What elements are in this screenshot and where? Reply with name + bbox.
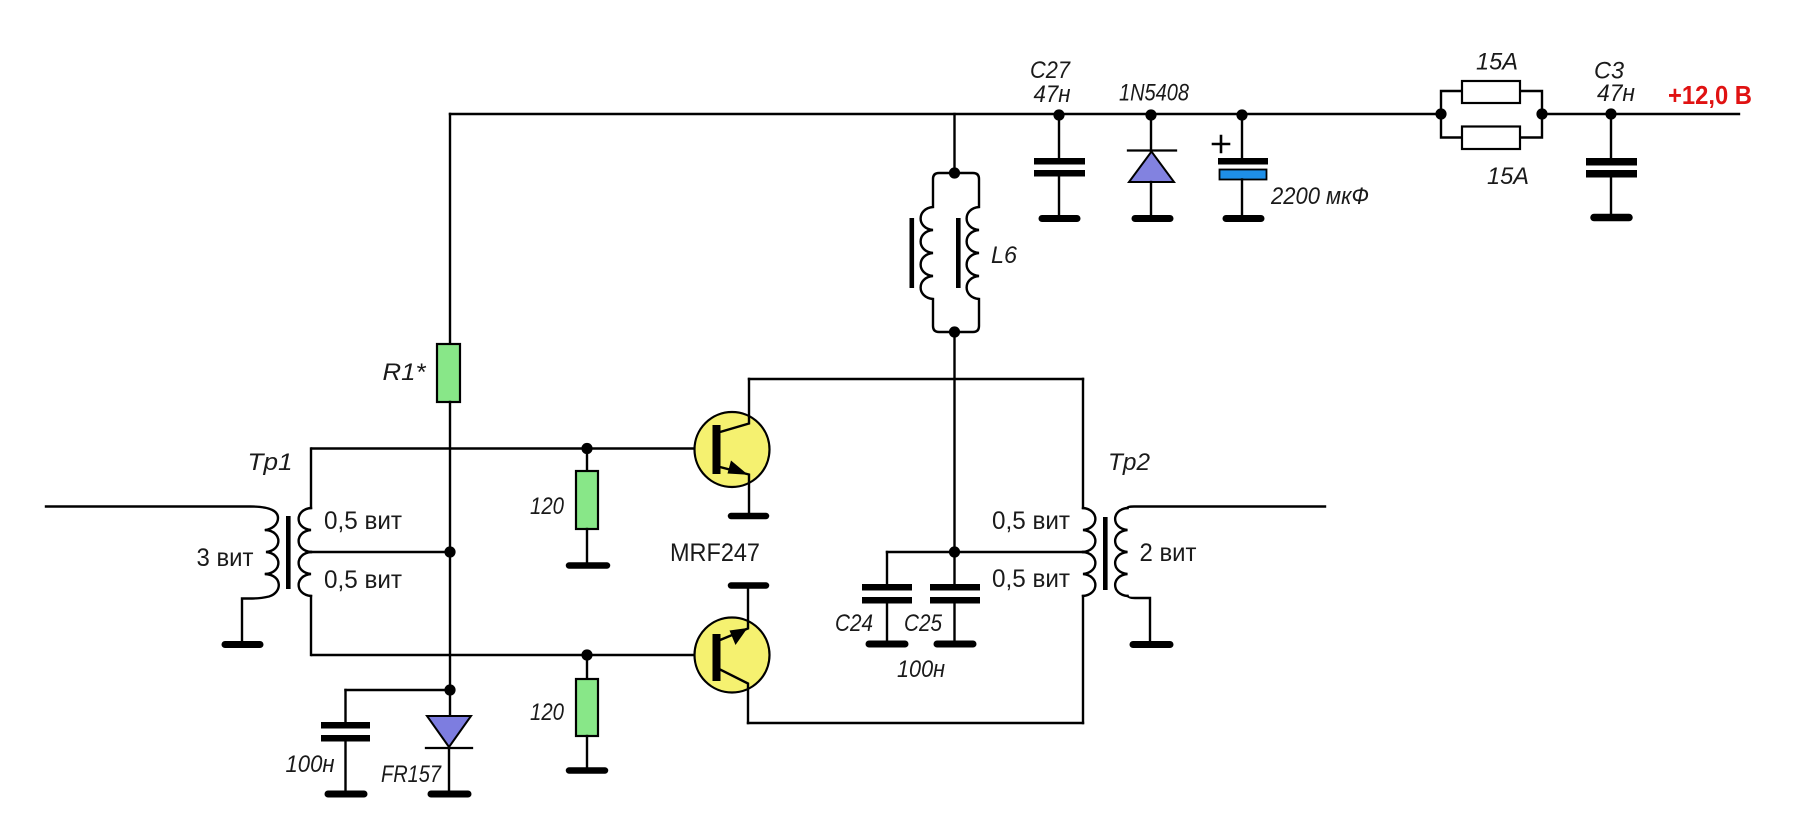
wire input line [46,507,278,531]
transformer Tp2 [992,449,1325,645]
node C27 [1053,109,1064,120]
svg-text:100н: 100н [286,751,335,778]
ground C27 [1042,215,1077,222]
wire collector box bottom [748,722,1083,724]
resistor R1 [437,344,460,402]
core L6 right [956,218,961,288]
inductor Tp1 secondary lower 0,5 вит [299,552,311,596]
ground Tp2 secondary [1133,641,1170,648]
fuse F1 15A [1462,81,1520,103]
wire box right upper [1082,379,1084,508]
svg-text:C25: C25 [904,610,943,637]
svg-text:1N5408: 1N5408 [1119,80,1190,107]
wire L6 bottom lead to center-tap junction [953,332,955,552]
wire +12V top rail left of fuse [450,113,1441,115]
node center-tap junction Tp1 [444,546,455,557]
svg-text:0,5 вит: 0,5 вит [324,507,403,535]
svg-text:47н: 47н [1597,80,1635,107]
wire Tp2 secondary to ground [1128,596,1151,640]
svg-text:+12,0 В: +12,0 В [1668,80,1752,110]
wire to capacitor 100н [346,689,451,691]
wire R1 top lead from rail [449,114,451,344]
wire +12V top rail right of fuse [1542,113,1739,115]
transformer Tp1 [46,449,403,656]
svg-text:100н: 100н [897,656,945,683]
core L6 left [910,218,915,288]
fuse F2 15A [1462,127,1520,150]
node fuse left [1435,108,1446,119]
svg-text:120: 120 [530,699,565,726]
ground D1 [1135,215,1170,222]
node D1 [1145,109,1156,120]
wire L6 top lead [953,114,955,173]
core Tp1 [286,516,291,589]
node L6 top [949,167,960,178]
wire upper base rail [312,447,713,449]
capacitor C27 [1030,57,1085,219]
inductor Tp1 secondary upper 0,5 вит [299,508,311,552]
ground 120 lower [569,767,605,774]
svg-text:0,5 вит: 0,5 вит [992,565,1071,593]
ground C electrolytic [1226,215,1261,222]
svg-text:2200 мкФ: 2200 мкФ [1270,183,1369,210]
capacitor C25 [897,552,980,683]
emitter line Q1 with arrow [720,467,749,513]
svg-text:47н: 47н [1034,81,1071,108]
wire center tap to Tp2 [955,551,1084,553]
ground Q2 emitter [731,582,766,589]
svg-text:15A: 15A [1487,163,1529,190]
inductor Tp1 primary 3 вит [266,530,278,574]
wire Tp2 secondary output [1128,507,1326,509]
node 120 R3 top [581,649,592,660]
transistor Q1 MRF247 upper [695,379,770,516]
ground FR157 [431,791,468,798]
svg-text:R1*: R1* [383,359,427,386]
capacitor 100н left [286,690,371,794]
node FR157 junction [444,684,455,695]
transistor Q2 MRF247 lower [695,586,770,724]
capacitor electrolytic 2200 мкФ [1213,109,1369,218]
node fuse right [1536,108,1547,119]
svg-text:Tp2: Tp2 [1108,449,1150,476]
svg-text:15A: 15A [1476,49,1518,76]
svg-text:2 вит: 2 вит [1140,539,1198,567]
node L6 bottom [949,326,960,337]
capacitor C3 [1586,58,1637,218]
capacitor C24 [835,552,912,644]
ground C25 [937,641,973,648]
collector line Q2 [720,670,748,724]
node C3 [1605,108,1616,119]
ground Q1 emitter [731,513,766,520]
svg-text:3 вит: 3 вит [197,544,255,572]
ground C24 [869,641,905,648]
wire Tp1 center tap [311,551,450,553]
svg-text:MRF247: MRF247 [670,539,760,567]
svg-text:0,5 вит: 0,5 вит [992,507,1071,535]
wire Tp1 secondary bottom lead [310,596,312,655]
inductor Tp2 secondary 2 вит [1115,508,1127,596]
ground 120 upper [569,562,607,569]
svg-text:L6: L6 [991,242,1018,269]
L6 right winding [955,173,980,332]
node C electrolytic [1236,109,1247,120]
svg-text:120: 120 [530,493,565,520]
wire Tp1 primary to ground [242,574,279,640]
ground 100н [328,791,364,798]
wire junction to C24 [887,551,955,553]
inductor Tp2 primary lower 0,5 вит [1083,552,1095,596]
fuse pair 15A [1435,49,1547,191]
ground Tp1 primary [225,641,260,648]
inductor L6 [910,114,1018,552]
svg-text:C24: C24 [835,610,873,637]
diode D1 1N5408 [1119,80,1190,219]
svg-text:FR157: FR157 [381,761,442,788]
plus sign [1213,136,1229,152]
svg-text:Tp1: Tp1 [248,449,293,476]
resistor 120 lower [530,655,605,771]
L6 left winding [921,173,955,332]
svg-text:C27: C27 [1030,57,1071,84]
ground C3 [1594,214,1629,222]
wire box right lower [1082,596,1084,723]
node Tp2 center-tap junction [949,546,960,557]
wire lower base rail [312,654,713,656]
node 120 R2 top [581,443,592,454]
emitter line Q2 with arrow (up) [720,588,748,640]
wire fuse frame upper [1441,91,1542,114]
core Tp2 [1103,517,1108,590]
wire Tp1 secondary top lead [310,449,312,509]
wire R1 bottom lead down to FR157 junction [449,402,451,690]
wire collector box top [749,378,1083,380]
resistor 120 upper [530,449,607,566]
svg-text:0,5 вит: 0,5 вит [324,566,403,594]
collector line Q1 [720,379,749,432]
inductor Tp2 primary upper 0,5 вит [1083,508,1095,552]
wire fuse frame lower [1441,114,1542,138]
diode FR157 [381,690,472,794]
